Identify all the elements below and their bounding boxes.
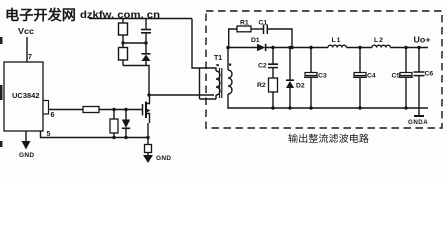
wire secondary bottom bbox=[227, 94, 229, 108]
wire secondary top riser bbox=[227, 48, 229, 71]
wire top clamp rail bbox=[89, 18, 192, 20]
svg-text:7: 7 bbox=[28, 54, 32, 61]
svg-text:D2: D2 bbox=[296, 83, 305, 90]
node phase dot primary bbox=[217, 64, 219, 66]
node secondary top junction bbox=[226, 46, 230, 50]
node bottom C5 bbox=[404, 106, 407, 109]
resistor R1 bbox=[237, 26, 251, 32]
svg-text:电子开发网: 电子开发网 bbox=[5, 7, 76, 23]
node bottom C2 bbox=[271, 106, 274, 109]
diode D2 bbox=[289, 48, 291, 81]
resistor R lower (clamp) bbox=[122, 43, 124, 48]
node bottom C4 bbox=[358, 106, 361, 109]
ground sense bbox=[143, 155, 153, 163]
dashed box output section bbox=[206, 11, 442, 128]
transformer T1 left loop vertical bbox=[199, 68, 201, 99]
node rail zener bbox=[124, 136, 127, 139]
node phase dot secondary bbox=[229, 64, 231, 66]
node bottom D2 bbox=[288, 106, 291, 109]
capacitor C1 bbox=[263, 25, 265, 35]
ground under U1 bbox=[25, 131, 27, 141]
node rail R3 bbox=[112, 136, 115, 139]
capacitor C3 bbox=[310, 48, 312, 73]
zener D3 bbox=[125, 110, 127, 120]
op-amp U1 UC3842 box bbox=[4, 62, 43, 131]
pin 6 tab bbox=[43, 101, 49, 115]
wire secondary bottom rail bbox=[227, 107, 428, 109]
transformer T1 bottom link bbox=[200, 98, 217, 100]
capacitor C5 bbox=[405, 48, 407, 73]
svg-text:D1: D1 bbox=[251, 37, 260, 44]
resistor R3 vertical bbox=[113, 110, 115, 120]
pin 5 stub bbox=[41, 131, 43, 138]
svg-text:C1: C1 bbox=[259, 20, 268, 27]
svg-text:R1: R1 bbox=[240, 20, 249, 27]
wire primary bottom rail (pin5) bbox=[42, 137, 148, 139]
node clamp mid left bbox=[121, 41, 124, 44]
node drain junction bbox=[147, 93, 150, 96]
svg-text:R2: R2 bbox=[257, 82, 266, 89]
wire pin6 gate line bbox=[49, 109, 84, 111]
resistor R2 bbox=[269, 78, 278, 92]
node C3 top bbox=[309, 46, 312, 49]
svg-text:T1: T1 bbox=[214, 55, 222, 62]
resistor gate bbox=[83, 107, 99, 113]
wire clamp bottom line bbox=[123, 66, 149, 96]
svg-text:C2: C2 bbox=[258, 63, 267, 70]
resistor sense R5 bbox=[147, 138, 149, 145]
scan artifact edge mark 3 bbox=[0, 141, 3, 147]
svg-text:C5: C5 bbox=[392, 73, 401, 80]
scan artifact edge mark 2 bbox=[0, 85, 3, 100]
svg-text:6: 6 bbox=[51, 112, 55, 119]
wire drain to transformer bbox=[149, 94, 214, 96]
wire secondary top rail bbox=[266, 47, 328, 49]
wire C1 return bbox=[267, 29, 292, 48]
wire gate line cont bbox=[99, 109, 143, 111]
wire R1 to C1 bbox=[251, 28, 263, 30]
node C4 top bbox=[358, 46, 361, 49]
svg-text:L1: L1 bbox=[332, 37, 342, 44]
node C1 return bbox=[290, 46, 293, 49]
svg-text:C3: C3 bbox=[318, 73, 327, 80]
svg-text:L2: L2 bbox=[374, 37, 384, 44]
svg-text:dzkfw. com. cn: dzkfw. com. cn bbox=[80, 10, 160, 21]
svg-text:GND: GND bbox=[19, 152, 34, 159]
svg-text:UC3842: UC3842 bbox=[12, 93, 40, 100]
transformer T1 primary winding bbox=[216, 71, 220, 95]
svg-text:Vcc: Vcc bbox=[18, 27, 35, 36]
svg-text:GND: GND bbox=[156, 155, 171, 162]
svg-text:Uo+: Uo+ bbox=[414, 36, 431, 45]
wire Vcc bbox=[26, 37, 28, 62]
wire L1 to L2 bbox=[346, 47, 372, 49]
capacitor C6 bbox=[418, 48, 420, 73]
transformer T1 secondary winding bbox=[228, 70, 232, 94]
node gate line zener tap bbox=[124, 108, 127, 111]
node clamp mid right bbox=[144, 41, 147, 44]
svg-text:5: 5 bbox=[47, 131, 51, 138]
capacitor C clamp bbox=[145, 19, 147, 30]
node C2 top bbox=[271, 46, 274, 49]
diode clamp (cathode up) bbox=[145, 43, 147, 54]
resistor R upper (clamp) bbox=[122, 19, 124, 24]
diode D1 bbox=[257, 44, 265, 51]
wire L2 to end bbox=[390, 47, 428, 49]
capacitor C4 bbox=[359, 48, 361, 73]
node rail source bbox=[146, 136, 149, 139]
svg-text:GNDA: GNDA bbox=[408, 119, 428, 126]
node bottom C3 bbox=[309, 106, 312, 109]
node C5 top bbox=[404, 46, 407, 49]
capacitor C2 bbox=[272, 48, 274, 65]
node C6 top bbox=[417, 46, 420, 49]
ground GNDA bbox=[418, 108, 420, 116]
node gate line R3 tap bbox=[112, 108, 115, 111]
node D2 top bbox=[288, 46, 291, 49]
svg-text:C4: C4 bbox=[367, 73, 376, 80]
svg-text:C6: C6 bbox=[425, 71, 434, 78]
scan artifact edge mark 1 bbox=[0, 37, 3, 44]
inductor L2 bbox=[372, 45, 390, 47]
inductor L1 bbox=[328, 45, 346, 47]
wire secondary rail to D1 bbox=[228, 47, 257, 49]
svg-text:输出整流滤波电路: 输出整流滤波电路 bbox=[288, 133, 370, 145]
wire snubber branch up bbox=[229, 29, 237, 48]
wire clamp mid line bbox=[123, 42, 146, 44]
wire rail to transformer primary top bbox=[192, 19, 216, 72]
transistor Q1 MOSFET bbox=[142, 104, 144, 116]
transformer core bbox=[219, 68, 221, 98]
